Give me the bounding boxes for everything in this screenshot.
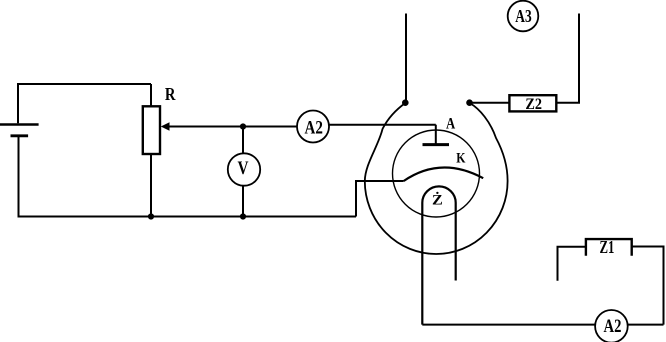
svg-text:Z1: Z1 <box>600 237 615 257</box>
wire R top lead <box>150 84 152 106</box>
node junction dot at V tap <box>240 123 246 129</box>
wire step up to grid <box>356 181 404 217</box>
wire top <box>17 83 151 85</box>
ammeter A2 (anode circuit) <box>297 111 329 143</box>
wire V bottom lead <box>242 186 244 217</box>
wire bottom <box>18 216 357 218</box>
svg-text:K: K <box>456 151 466 167</box>
ammeter A2 (cathode circuit) <box>595 310 628 342</box>
wire A2 to anode <box>313 124 436 126</box>
svg-text:A: A <box>446 116 455 133</box>
node junction dot bottom under R <box>148 213 154 219</box>
svg-text:V: V <box>238 159 250 179</box>
node junction dot tube left lead <box>402 99 409 106</box>
wire top right vertical <box>556 14 579 103</box>
tube inner circle <box>393 130 480 217</box>
voltmeter V <box>228 153 260 185</box>
wire V top lead <box>242 127 244 154</box>
wire Z1 left lead with open stub <box>558 247 586 281</box>
resistor Z2 <box>509 95 556 113</box>
resistor R (potentiometer body) <box>143 106 160 154</box>
wire right vertical up to Z1 <box>632 247 664 325</box>
anode plate A <box>423 143 450 146</box>
node junction dot bottom under V <box>240 213 246 219</box>
battery B1 <box>0 125 39 136</box>
svg-text:A3: A3 <box>515 6 531 26</box>
wire battery bottom lead <box>18 136 20 217</box>
wire R bottom lead <box>150 154 152 217</box>
svg-text:Z2: Z2 <box>525 95 542 113</box>
wire battery top lead <box>17 84 19 123</box>
svg-text:Ż: Ż <box>432 192 443 209</box>
grid K arc <box>404 168 484 181</box>
tube envelope <box>365 103 508 254</box>
svg-text:R: R <box>165 84 176 104</box>
ammeter A3 <box>508 1 539 32</box>
wire Z2 left lead <box>471 102 509 104</box>
svg-text:A2: A2 <box>305 117 323 138</box>
wiper arrow of R <box>161 122 298 131</box>
resistor Z1 (open-bottom box) <box>586 237 632 257</box>
wire anode lead down <box>435 125 437 144</box>
cathode heater (inverted U) <box>422 186 455 324</box>
wire bottom right <box>422 324 663 326</box>
wire top left vertical <box>405 14 407 103</box>
svg-text:A2: A2 <box>604 317 622 337</box>
node junction dot tube right lead <box>466 99 473 106</box>
